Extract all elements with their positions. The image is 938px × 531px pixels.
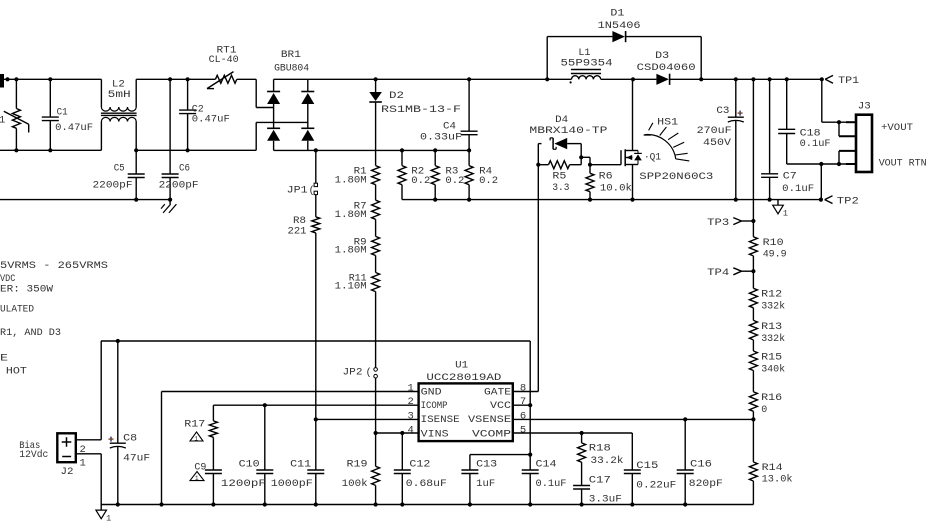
node boost (Q1 drain) [631,77,635,81]
svg-text:D2: D2 [389,90,404,102]
label U1 [455,359,468,371]
svg-text:C17: C17 [589,475,611,487]
svg-text:1200pF: 1200pF [221,478,266,490]
label D3 [655,50,669,62]
svg-text:C10: C10 [239,459,260,471]
diode BR1 bottom-right [301,128,314,150]
capacitor C18 [778,79,795,164]
node top rail at C2 [186,77,190,81]
pin 4 name VINS [421,428,449,440]
svg-text:U1: U1 [455,359,468,371]
svg-text:340k: 340k [761,363,785,375]
wire bottom rail mid [136,122,308,150]
wire power ground line [402,199,821,201]
svg-text:VSENSE: VSENSE [468,414,511,426]
capacitor C16 [677,419,694,504]
node bottom rail C12 [400,502,404,506]
label C13 [476,459,497,471]
resistor R18 [578,433,586,462]
svg-text:R14: R14 [762,462,783,474]
capacitor C2 [179,79,196,150]
diode BR1 top-left [267,79,280,128]
label R14 [762,462,783,474]
op-amp U1 box [419,383,513,441]
node bottom rail at C2 [186,148,190,152]
svg-text:1: 1 [106,513,111,523]
label R4 value [479,175,498,187]
wire D3 to output [670,78,822,80]
node bottom rail R19 [374,502,378,506]
svg-text:TP3: TP3 [707,217,729,229]
svg-text:55P9354: 55P9354 [561,58,613,70]
svg-text:49.9: 49.9 [763,249,787,261]
svg-text:CL-40: CL-40 [209,54,239,66]
test point TP2 [825,196,833,204]
wire VCC line [101,341,530,405]
node pgnd R6 [588,198,592,202]
wire D4 left vert [537,144,539,165]
label R2 [411,166,424,178]
pin number 1 [408,382,414,394]
label C6 [179,163,190,175]
node bottom rail C17 [580,502,584,506]
svg-text:C3: C3 [716,105,729,117]
svg-text:820pF: 820pF [689,478,723,490]
note line 6 [0,352,8,364]
node bottom rail C13 [468,502,472,506]
svg-text:270uF: 270uF [697,125,732,137]
svg-text:C6: C6 [179,163,190,175]
pin number 8 [520,382,526,394]
wire top rail mid [136,78,215,80]
svg-text:1: 1 [408,382,414,394]
jumper JP2 [374,368,378,433]
label R11 value [335,281,367,293]
pin number 7 [520,396,526,408]
label R1 [354,166,367,178]
node gate R6 [588,163,592,167]
svg-text:GATE: GATE [484,387,511,399]
pin 1 name GND [421,387,442,399]
node earth at C5 [134,198,138,202]
pin number 5 [520,424,526,436]
label TP2 [837,196,859,208]
pin number 4 [408,424,414,436]
label R1 value [335,175,367,187]
label 12Vdc [19,449,48,461]
label D2 part [381,104,461,116]
label C16 value [689,478,723,490]
wire VINS line [376,432,419,434]
svg-text:332k: 332k [761,333,785,345]
pin number 3 [408,410,414,422]
label L1 [578,47,590,59]
svg-text:RS1MB-13-F: RS1MB-13-F [381,104,461,116]
label R19 [347,459,368,471]
svg-text:5: 5 [520,424,526,436]
capacitor C3 [728,79,744,199]
svg-text:0.2: 0.2 [479,175,498,187]
label D4 part [529,125,607,137]
svg-text:C7: C7 [783,171,797,183]
wire bridge bottom [274,149,470,151]
transistor Q1 [621,79,642,199]
jumper JP1 [314,150,317,217]
node gate drive [536,163,540,167]
svg-text:·Q1: ·Q1 [644,151,661,163]
svg-text:1: 1 [80,457,86,469]
label J2 pin 2 [80,444,86,456]
wire R9-R11 [375,256,377,273]
resistor R12 [749,271,757,308]
label RT1 value [209,54,239,66]
label C7 value [782,183,814,195]
svg-text:1: 1 [195,475,199,482]
svg-text:C5: C5 [114,163,125,175]
label R8 value [288,225,307,237]
svg-text:12Vdc: 12Vdc [19,449,48,461]
capacitor C9 [205,437,222,504]
svg-text:D1: D1 [610,8,624,20]
test point TP1 [825,75,833,83]
wire D4 right vert [580,144,582,165]
note line 5 [0,327,61,339]
label TP3 [707,217,729,229]
capacitor C13 [461,470,478,505]
node bottom rail GND loop [159,502,163,506]
label C11 [290,459,311,471]
label C4 [443,120,456,132]
bridge rectifier BR1 top wire [274,78,308,80]
label C3 voltage [703,137,732,149]
label C3 value [697,125,732,137]
thermistor RT1 [207,72,237,89]
warning triangle C9 [190,472,204,482]
node on top rail at C1 [48,77,52,81]
wire R13-R15 [752,340,754,351]
svg-text:CSD04060: CSD04060 [637,62,696,74]
wire gate drive down [537,165,539,392]
wire VCOMP line [513,433,633,470]
pin number 6 [520,410,526,422]
svg-text:MBRX140-TP: MBRX140-TP [529,125,607,137]
label R19 value [342,478,368,490]
label TP1 [838,75,859,87]
label R12 [761,289,782,301]
svg-text:R17: R17 [184,418,205,430]
wire ISENSE line [316,418,419,420]
svg-text:0: 0 [761,404,767,416]
wire divider top [752,79,754,221]
node ISENSE [314,417,318,421]
node VSENSE divider [751,417,755,421]
capacitor C17 [573,462,590,504]
svg-text:GND: GND [421,387,442,399]
wire GATE [513,391,539,393]
svg-text:0.1uF: 0.1uF [800,138,831,150]
svg-text:JP2: JP2 [343,366,363,378]
label R18 [589,443,611,455]
label L2 [112,78,125,90]
svg-text:C4: C4 [443,120,456,132]
label BR1 part [274,63,309,75]
svg-text:R5: R5 [552,171,566,183]
svg-text:VOUT RTN: VOUT RTN [879,158,927,170]
label R8 [293,215,306,227]
label R9 [354,236,367,248]
svg-text:ICOMP: ICOMP [421,400,448,412]
svg-text:ER: 350W: ER: 350W [0,284,54,296]
node bottom rail C8 [116,502,120,506]
ground symbol bottom [96,505,111,524]
capacitor C11 [307,419,324,504]
node VCOMP R18 [580,431,584,435]
label L2 value [108,89,131,101]
svg-text:C14: C14 [536,459,557,471]
label HS1 [657,117,678,129]
label C8 [123,433,137,445]
node VCC pin7 [528,403,532,407]
svg-text:D3: D3 [655,50,669,62]
label R12 value [761,301,785,313]
diode D3 [656,74,669,85]
capacitor C4 [461,79,478,165]
node shunt R3 top [433,148,437,152]
node J3 pin1 [837,120,841,124]
label R14 value [762,473,793,485]
node VSENSE C16 [683,417,687,421]
svg-text:7: 7 [520,396,526,408]
node bottom rail at L2/C5 [134,148,138,152]
resistor R16 [749,392,757,412]
label C11 value [271,478,313,490]
label R3 [445,166,458,178]
capacitor C6 [162,79,179,199]
svg-text:R16: R16 [761,392,782,404]
capacitor C8 [109,339,126,505]
label R2 value [411,175,430,187]
wire VSENSE line [513,418,754,420]
node shunt R4/C4 [467,148,471,152]
svg-text:R6: R6 [599,171,613,183]
label C8 value [123,453,150,465]
node TP3 [751,219,755,223]
node bottom rail C14 [528,502,532,506]
label R7 [354,201,367,213]
label R5 [552,171,566,183]
label C3 [716,105,729,117]
node shunt R2 top [400,148,404,152]
svg-text:1: 1 [0,114,5,126]
svg-text:C8: C8 [123,433,137,445]
svg-text:13.0k: 13.0k [762,473,793,485]
node top rail divider [751,77,755,81]
label C5 [114,163,125,175]
label J2 pin 1 [80,457,86,469]
svg-text:BR1: BR1 [281,49,301,61]
svg-text:1: 1 [783,208,788,218]
node pgnd R4 [467,198,471,202]
inductor L2 (common-mode choke) [101,79,137,150]
svg-text:TP1: TP1 [838,75,859,87]
label C1 value [55,122,93,134]
svg-text:C15: C15 [636,460,658,472]
label R4 [479,166,492,178]
label C12 value [406,478,447,490]
svg-text:VCC: VCC [490,400,511,412]
svg-text:VCOMP: VCOMP [472,428,511,440]
label D1 [610,8,624,20]
wire R8 to ISENSE [315,233,317,420]
node earth at C6 [168,198,172,202]
svg-text:0.33uF: 0.33uF [420,132,462,144]
warning triangle R17 [190,432,203,442]
capacitor C5 [128,150,145,199]
svg-text:J3: J3 [858,101,871,113]
label C10 value [221,478,266,490]
diode D4 [538,138,581,149]
svg-text:10.0k: 10.0k [600,182,632,194]
diode BR1 top-right [301,79,314,128]
node top rail C4 [467,77,471,81]
svg-text:R1, AND D3: R1, AND D3 [0,327,61,339]
svg-text:HS1: HS1 [657,117,678,129]
node top rail D2 [374,77,378,81]
svg-text:2: 2 [408,396,414,408]
label C16 [690,459,712,471]
svg-text:6: 6 [520,410,526,422]
svg-text:TP4: TP4 [707,267,729,279]
test point TP4 [733,268,753,275]
svg-text:0.2: 0.2 [411,175,430,187]
wire VCC pin7 [513,404,530,406]
svg-text:5mH: 5mH [108,89,131,101]
svg-text:4: 4 [408,424,414,436]
node bridge bottom JP1 [314,148,318,152]
svg-text:TP2: TP2 [837,196,859,208]
pin 8 name GATE [484,387,511,399]
label Bias [19,440,40,452]
svg-text:3.3: 3.3 [552,182,569,194]
node top rail D1 branch [545,77,549,81]
label R16 [761,392,782,404]
svg-text:(: ( [366,367,372,379]
wire C13 jog [470,455,530,470]
label R15 value [761,363,785,375]
svg-text:C13: C13 [476,459,497,471]
wire gate step [581,157,590,164]
label C14 value [536,478,567,490]
wire earth line [0,199,170,201]
label U1 part [426,372,501,384]
svg-text:R10: R10 [763,237,784,249]
connector J2 [57,433,76,462]
label J2 [61,466,74,478]
wire VCC to C14 [529,405,531,470]
node top rail at C6 line [168,77,172,81]
diode D2 [369,79,382,165]
label C2 value [192,113,230,125]
node top rail C7 [768,77,772,81]
note line 7 [6,365,27,377]
node top rail J3 [820,77,824,81]
svg-text:5VRMS - 265VRMS: 5VRMS - 265VRMS [0,260,108,272]
svg-text:8: 8 [520,382,526,394]
wire top rail right of bridge [308,78,547,80]
label +VOUT [881,122,913,134]
label R6 [599,171,613,183]
svg-text:332k: 332k [761,301,785,313]
label D2 [389,90,404,102]
wire GND pin1 loop [162,392,419,505]
resistor R3 [431,150,439,199]
resistor R7 [372,200,380,219]
svg-text:0.47uF: 0.47uF [192,113,230,125]
svg-text:3.3uF: 3.3uF [589,494,622,506]
svg-text:1.10M: 1.10M [335,281,367,293]
label C9 [194,462,206,474]
svg-text:1uF: 1uF [476,478,495,490]
test point TP3 [733,218,753,225]
wire R7-R9 [375,219,377,236]
resistor R6 [586,165,594,200]
label R6 value [600,182,632,194]
label R3 value [445,175,464,187]
inductor L1 [547,70,633,84]
svg-text:ULATED: ULATED [0,304,34,316]
svg-text:0.68uF: 0.68uF [406,478,447,490]
svg-text:0.1uF: 0.1uF [782,183,814,195]
node VINS C12 [400,431,404,435]
svg-text:47uF: 47uF [123,453,150,465]
resistor R15 [749,351,757,371]
wire ICOMP line [213,404,418,406]
resistor R9 [372,236,380,255]
pin 5 name VCOMP [472,428,511,440]
wire bottom rail left [0,149,101,151]
node pgnd Q1 source [630,198,634,202]
node bottom rail C16 [683,502,687,506]
label C10 [239,459,260,471]
svg-text:0.47uF: 0.47uF [55,122,93,134]
capacitor C14 [522,470,539,505]
svg-text:33.2k: 33.2k [591,455,624,467]
label C17 value [589,494,622,506]
node pgnd TP2 [819,198,823,202]
note line 3 [0,284,54,296]
wire R12-R13 [752,308,754,321]
label R18 value [591,455,624,467]
node pgnd C7 [768,198,772,202]
label R15 [761,351,782,363]
label R10 value [763,249,787,261]
svg-text:1.80M: 1.80M [335,245,367,257]
label D3 part [637,62,696,74]
label BR1 [281,49,301,61]
label R10 [763,237,784,249]
node bottom rail C11 [314,502,318,506]
resistor R17 [209,405,217,437]
node VCC C13 branch [528,453,532,457]
label C18 value [800,138,831,150]
label R9 value [335,245,367,257]
svg-text:0.1uF: 0.1uF [536,478,567,490]
svg-text:2200pF: 2200pF [159,180,199,192]
svg-text:+VOUT: +VOUT [881,122,913,134]
resistor R2 [398,150,406,199]
capacitor C12 [394,433,411,505]
svg-text:VINS: VINS [421,428,449,440]
